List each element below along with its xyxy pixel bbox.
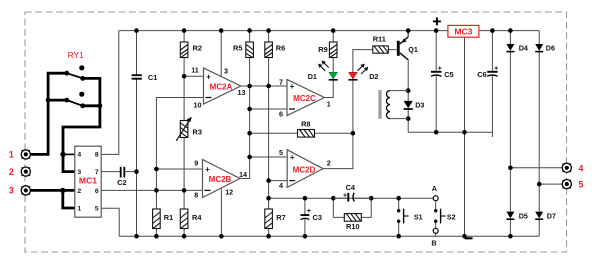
svg-text:2: 2	[9, 167, 14, 177]
svg-text:D2: D2	[369, 72, 378, 81]
relay RY1 switch arm 1	[67, 73, 83, 78]
wire MC2C output riser through D1	[324, 80, 333, 98]
wire D6-D7 vertical	[538, 31, 540, 44]
wire MC2D pin4 line	[269, 180, 288, 182]
svg-text:8: 8	[194, 191, 198, 200]
junction D4-D5 to output 4	[508, 166, 513, 171]
junction coil bottom / D3 cathode	[406, 116, 411, 121]
wire R11 to Q1 base	[388, 49, 397, 51]
transistor Q1 (PNP)	[397, 41, 400, 56]
svg-text:11: 11	[191, 66, 199, 75]
svg-text:D6: D6	[546, 43, 555, 52]
wire C1 branch vertical	[136, 31, 138, 75]
svg-text:R2: R2	[193, 44, 202, 53]
resistor R6	[265, 42, 273, 58]
svg-text:C1: C1	[148, 73, 157, 82]
resistor R8	[298, 130, 315, 138]
op-amp U=MC2C	[287, 80, 324, 116]
junction C1 bottom on ground rail	[134, 234, 139, 239]
svg-text:2: 2	[77, 188, 81, 195]
node B terminal	[433, 228, 438, 233]
LED D1 (green)	[329, 72, 337, 79]
svg-text:4: 4	[77, 152, 81, 159]
junction C3 bottom on ground rail	[303, 234, 308, 239]
svg-text:7: 7	[279, 78, 283, 87]
wire relay contact return right side	[63, 78, 100, 171]
wire C3 branch	[304, 198, 306, 215]
relay RY1 switch arm 2	[67, 100, 83, 106]
svg-text:5: 5	[578, 180, 583, 190]
svg-text:4: 4	[279, 181, 283, 190]
wire C2 to ground bus	[125, 171, 137, 173]
svg-text:R9: R9	[318, 45, 327, 54]
junction D4 anode on +V rail	[508, 28, 513, 33]
capacitor C1	[132, 74, 142, 76]
junction S1 on node A line	[396, 196, 401, 201]
junction C4/R10 right on node A line	[369, 196, 374, 201]
junction MC2A pin3 on +V rail	[219, 28, 224, 33]
minus supply symbol	[465, 237, 473, 239]
junction MC3 ground on ground rail	[462, 234, 467, 239]
svg-text:R8: R8	[301, 120, 310, 129]
svg-text:+: +	[494, 66, 498, 73]
svg-text:+: +	[343, 192, 347, 199]
svg-text:R10: R10	[346, 222, 360, 231]
svg-text:2: 2	[327, 159, 331, 168]
svg-text:D4: D4	[519, 43, 528, 52]
wire bottom ground rail	[119, 235, 539, 237]
svg-text:R11: R11	[373, 35, 386, 44]
svg-text:MC1: MC1	[79, 175, 97, 185]
variable resistor R3	[180, 121, 188, 138]
resistor R4	[180, 209, 188, 229]
wire relay pole 2 branch	[48, 99, 67, 102]
diode D5	[506, 212, 514, 219]
wire MC2A pin11 input line	[184, 75, 203, 77]
svg-text:R6: R6	[276, 44, 285, 53]
junction MC2B pin12 on ground rail	[219, 234, 224, 239]
junction R6 top on +V rail	[266, 28, 271, 33]
resistor R2	[180, 42, 188, 58]
svg-text:R4: R4	[192, 213, 202, 222]
svg-text:3: 3	[9, 186, 14, 196]
svg-text:C5: C5	[444, 70, 453, 79]
wire R2-R3-R4 vertical	[183, 31, 185, 237]
wire node A line	[269, 197, 434, 199]
junction R2/R3 to MC2A pin11	[182, 74, 187, 79]
resistor R9	[329, 42, 337, 58]
input jack 1	[21, 150, 30, 159]
svg-text:6: 6	[95, 188, 99, 195]
svg-text:C2: C2	[117, 178, 126, 187]
wire R9 top lead	[332, 31, 334, 42]
junction R5 bus to MC2D pin5 line	[247, 155, 252, 160]
wire Q1 collector to relay coil node	[407, 60, 409, 102]
wire left vertical rail to MC1 pin 8	[101, 31, 119, 155]
wire MC2B pin9 line	[156, 168, 202, 170]
wire MC1 pin7 to C2	[101, 171, 120, 173]
diode D4	[506, 44, 514, 51]
wire MC2B pin12 ground lead	[220, 188, 222, 236]
svg-text:MC2A: MC2A	[210, 83, 233, 92]
junction MC1 pin4 node	[60, 152, 65, 157]
wire D3 cathode to lower coil node and mid rail	[407, 109, 409, 132]
svg-text:MC3: MC3	[454, 27, 472, 37]
junction R5 bus to MC2C pin6 line	[247, 107, 252, 112]
junction R9 top on +V rail	[331, 28, 336, 33]
wire MC1 pin4 stub	[63, 153, 75, 155]
svg-text:13: 13	[238, 88, 246, 97]
wire Q1 emitter to rail	[407, 31, 409, 37]
svg-text:9: 9	[194, 159, 198, 168]
svg-text:S2: S2	[447, 212, 456, 221]
svg-text:MC2C: MC2C	[293, 94, 316, 103]
junction R1 bus on pin6-8 line	[154, 188, 159, 193]
wire MC3 ground pin	[464, 37, 466, 236]
wire D2 branch vertical and link to R11	[352, 80, 354, 134]
wire R8 line	[250, 132, 353, 134]
junction R5 bus on MC2A output line	[247, 84, 252, 89]
input jack 3	[21, 186, 30, 195]
junction R8 / D2 / MC2D output	[351, 131, 356, 136]
svg-text:3: 3	[77, 169, 81, 176]
svg-text:+: +	[205, 165, 210, 174]
wire top +V rail	[119, 30, 539, 32]
wire R5 vertical bus	[240, 31, 250, 179]
junction MC3 ground on mid rail	[462, 130, 467, 135]
input jack 2	[21, 167, 30, 176]
svg-text:6: 6	[279, 110, 283, 119]
wire MC2C pin6 line	[250, 108, 287, 110]
svg-text:A: A	[432, 184, 437, 193]
wire relay arm2 to right vertical	[83, 104, 100, 107]
svg-text:+: +	[438, 66, 442, 73]
wire R10 parallel loop	[333, 198, 344, 217]
output jack 5	[562, 180, 571, 189]
wire input 3 to MC1 pin2	[30, 189, 74, 192]
junction C2 to ground bus	[134, 169, 139, 174]
svg-text:+: +	[290, 82, 295, 91]
junction R2 top on +V rail	[182, 28, 187, 33]
svg-text:MC2D: MC2D	[293, 165, 316, 174]
capacitor C4	[347, 193, 349, 202]
wire output 4 line	[510, 167, 562, 169]
wire R1 bottom lead	[155, 229, 157, 237]
svg-text:12: 12	[225, 188, 233, 197]
svg-text:5: 5	[95, 206, 99, 213]
switch S2	[434, 209, 437, 212]
relay coil	[378, 90, 381, 119]
svg-text:4: 4	[578, 163, 583, 173]
svg-text:R5: R5	[233, 44, 242, 53]
svg-text:S1: S1	[414, 212, 423, 221]
plus supply symbol	[433, 20, 441, 22]
wire MC2D output riser	[323, 133, 353, 168]
resistor R5	[246, 42, 254, 58]
svg-text:B: B	[431, 239, 436, 248]
junction C5 top on +V rail	[434, 28, 439, 33]
IC MC3	[448, 25, 479, 37]
wire MC2A pin3 supply vertical	[220, 31, 222, 77]
junction C3 on node A line	[303, 196, 308, 201]
diode D7	[535, 212, 543, 219]
relay RY1 contact 2 open terminal	[79, 92, 84, 97]
junction S1 bottom on ground rail	[396, 234, 401, 239]
svg-text:C3: C3	[313, 213, 322, 222]
wire MC2A pin10 feedback line	[156, 98, 203, 210]
svg-text:R3: R3	[193, 128, 202, 137]
wire MC1 pin5 to bottom rail	[101, 208, 119, 236]
resistor R11	[373, 46, 389, 53]
wire input3 branch down to MC1 pin1	[63, 190, 75, 208]
junction D5 cathode on ground rail	[508, 234, 513, 239]
relay RY1 contact 1 open terminal	[79, 65, 84, 70]
wire mid ground rail	[408, 131, 492, 133]
capacitor C2	[120, 167, 122, 178]
junction R6 on MC2A output line	[266, 84, 271, 89]
svg-text:C6: C6	[477, 70, 486, 79]
wire C5 branch	[435, 31, 437, 72]
junction C4/R10 left on node A line	[331, 196, 336, 201]
wire C6 branch	[491, 31, 493, 72]
svg-text:10: 10	[194, 101, 202, 110]
wire S1 leads	[398, 198, 400, 209]
svg-text:+: +	[290, 153, 295, 162]
wire D4-D5 vertical	[509, 31, 511, 44]
svg-text:D5: D5	[519, 212, 528, 221]
svg-text:D3: D3	[415, 101, 424, 110]
resistor R7	[265, 209, 273, 229]
svg-text:R1: R1	[164, 213, 173, 222]
svg-text:8: 8	[95, 152, 99, 159]
svg-text:RY1: RY1	[68, 50, 84, 60]
junction R6 to MC2D pin4 line	[266, 178, 271, 183]
svg-text:14: 14	[239, 170, 247, 179]
output jack 4	[562, 163, 571, 172]
svg-text:1: 1	[9, 150, 14, 160]
junction R1 bottom on ground rail	[154, 234, 159, 239]
svg-text:+: +	[206, 72, 211, 81]
capacitor C5	[431, 71, 441, 73]
svg-text:1: 1	[327, 99, 331, 108]
junction Q1 emitter on +V rail	[406, 28, 411, 33]
op-amp U=MC2A	[204, 68, 241, 104]
svg-text:3: 3	[224, 67, 228, 76]
junction Q1 collector / coil top / D3	[406, 88, 411, 93]
switch S1	[397, 209, 400, 212]
wire MC2D pin5 line	[250, 156, 288, 158]
junction R5 bus to R8 line	[247, 131, 252, 136]
svg-text:1: 1	[77, 206, 81, 213]
wire S2 leads A to B	[435, 201, 437, 210]
svg-text:5: 5	[279, 148, 283, 157]
node A terminal	[433, 196, 438, 201]
junction D6-D7 to output 5	[537, 182, 542, 187]
capacitor C3	[301, 214, 310, 216]
svg-text:7: 7	[95, 169, 99, 176]
capacitor C6	[487, 71, 497, 73]
junction R6/R7 on node A line	[266, 196, 271, 201]
svg-text:D1: D1	[308, 72, 317, 81]
LED D2 (red)	[349, 72, 357, 79]
resistor R1	[153, 209, 161, 229]
wire output 5 line	[539, 183, 562, 185]
junction R3/R4 on pin6-8 line	[182, 188, 187, 193]
junction input3 / MC1 pin2 node	[60, 188, 65, 193]
svg-text:C4: C4	[346, 183, 356, 192]
junction C1 top on +V rail	[134, 28, 139, 33]
wire R6-R7 vertical	[268, 31, 270, 237]
junction C5 bottom on mid rail	[434, 130, 439, 135]
junction R7 bottom on ground rail	[266, 234, 271, 239]
wire input 1 thick line up to relay poles	[30, 73, 66, 154]
junction R1 bus to MC2B pin9 line	[154, 167, 159, 172]
svg-text:D7: D7	[547, 212, 556, 221]
svg-text:R7: R7	[276, 213, 285, 222]
diode D3	[404, 101, 413, 108]
junction C6 top on +V rail	[490, 28, 495, 33]
op-amp U=MC2B	[203, 160, 241, 198]
IC MC1	[75, 146, 101, 217]
svg-text:Q1: Q1	[408, 45, 418, 54]
svg-text:+: +	[307, 208, 311, 215]
junction R4 bottom on ground rail	[182, 234, 187, 239]
svg-text:MC2B: MC2B	[209, 175, 232, 184]
resistor R10	[344, 214, 361, 222]
junction R5 top on +V rail	[247, 28, 252, 33]
diode D6	[535, 44, 543, 51]
wire MC2A output line to MC2C pin7	[241, 85, 287, 87]
wire MC1 pin6 to MC2B pin8 line	[101, 189, 202, 191]
op-amp U=MC2D	[287, 150, 323, 188]
